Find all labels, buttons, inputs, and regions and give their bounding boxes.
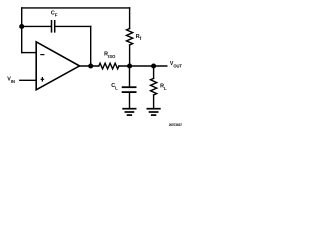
wire: RISO output rail to VOUT bbox=[119, 65, 167, 67]
wire: CF left lead bbox=[22, 25, 51, 27]
svg-text:CL: CL bbox=[111, 83, 118, 91]
svg-text:RISO: RISO bbox=[104, 52, 116, 60]
wire: VIN input lead bbox=[20, 79, 36, 81]
resistor RF bbox=[127, 29, 133, 46]
wire: RL top lead bbox=[153, 66, 155, 78]
capacitor CF bbox=[52, 20, 55, 33]
wire: RF bottom lead bbox=[129, 45, 131, 66]
wire: top feedback rail from node A over to RF top bbox=[22, 7, 130, 9]
wire: left feedback vertical bbox=[21, 8, 23, 53]
wire: jog to inverting input bbox=[22, 52, 37, 54]
resistor RL bbox=[151, 78, 157, 95]
wire: CL top lead bbox=[129, 66, 131, 86]
op-amp U1 bbox=[36, 42, 79, 90]
wire: CF branch vertical down to output node bbox=[90, 26, 92, 66]
svg-text:CF: CF bbox=[51, 11, 58, 18]
svg-text:VIN: VIN bbox=[7, 77, 15, 84]
wire: op-amp output to RISO bbox=[79, 65, 99, 67]
svg-text:20073637: 20073637 bbox=[169, 123, 183, 126]
ground symbol under RL bbox=[147, 109, 161, 115]
wire: CL bottom lead bbox=[129, 93, 131, 108]
svg-text:VOUT: VOUT bbox=[170, 61, 183, 69]
node A junction (inverting node) bbox=[19, 24, 24, 29]
node C junction (RF / CL node) bbox=[127, 63, 132, 68]
capacitor CL bbox=[122, 87, 137, 92]
node B junction (output / CF branch) bbox=[88, 63, 93, 68]
ground symbol under CL bbox=[122, 109, 136, 115]
op-amp U1 inverting pin marker bbox=[41, 54, 44, 56]
wire: RL bottom lead bbox=[153, 95, 155, 108]
wire: CF right lead bbox=[55, 25, 90, 27]
node D junction (RL node) bbox=[151, 63, 156, 68]
svg-text:RL: RL bbox=[160, 84, 167, 92]
op-amp U1 non-inverting pin marker bbox=[41, 78, 43, 81]
svg-text:Rf: Rf bbox=[136, 34, 142, 41]
resistor RISO bbox=[99, 63, 119, 69]
wire: RF top lead bbox=[129, 8, 131, 29]
